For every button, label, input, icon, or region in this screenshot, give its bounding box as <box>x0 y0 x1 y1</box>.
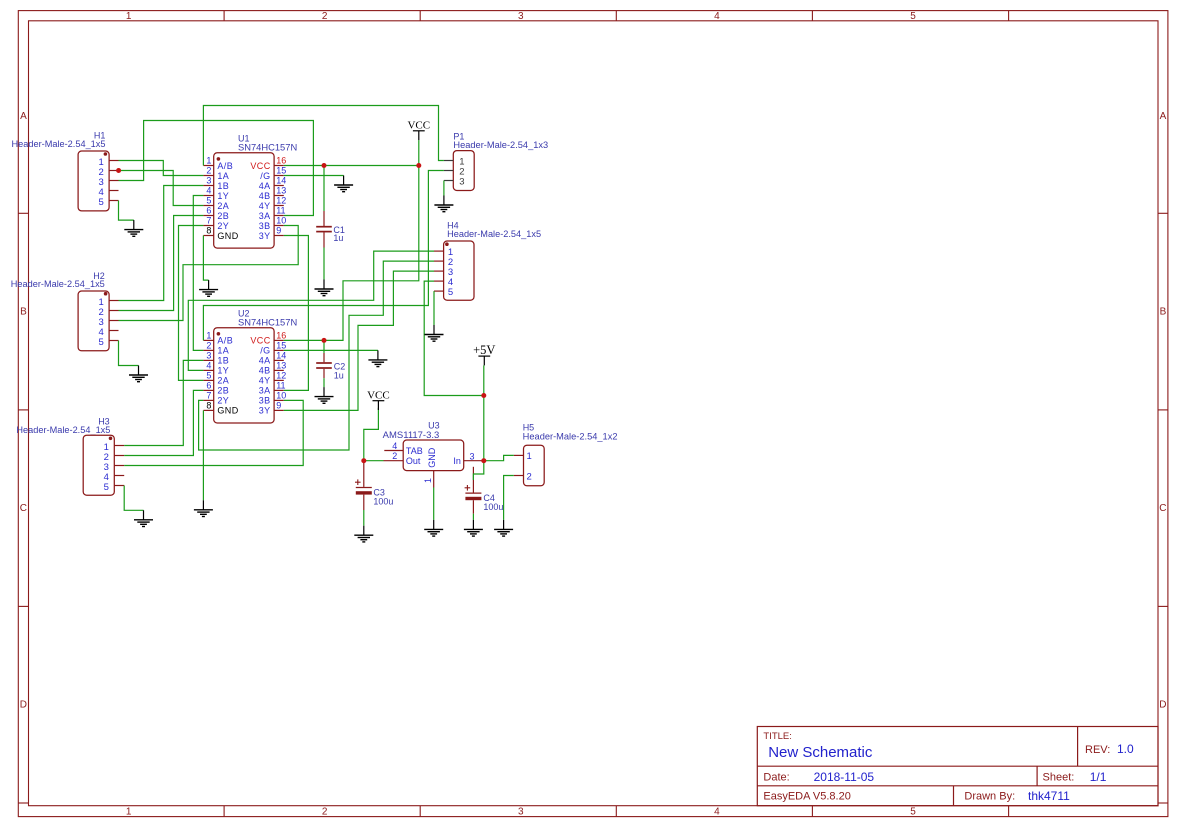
svg-text:/G: /G <box>260 346 270 356</box>
capacitor C2 1u <box>316 353 345 381</box>
wire net U2.6 2B to H3.2 <box>124 390 203 455</box>
ground at C2 <box>315 387 334 403</box>
wire net U2.7 2Y to H4.2 <box>199 261 434 450</box>
wire net VCC bus U1.16 to VCC flag <box>284 165 419 167</box>
svg-text:7: 7 <box>206 391 211 401</box>
svg-text:A/B: A/B <box>217 336 233 346</box>
svg-text:2: 2 <box>392 451 397 461</box>
svg-text:2: 2 <box>322 807 328 818</box>
svg-text:/G: /G <box>260 171 270 181</box>
svg-text:D: D <box>1159 699 1166 710</box>
ground at H2.5 <box>129 366 148 382</box>
svg-text:Date:: Date: <box>763 772 789 784</box>
svg-text:3: 3 <box>470 452 475 462</box>
svg-text:1Y: 1Y <box>217 191 229 201</box>
svg-text:Drawn By:: Drawn By: <box>964 791 1015 803</box>
svg-text:8: 8 <box>206 401 211 411</box>
svg-text:13: 13 <box>276 186 286 196</box>
svg-text:4B: 4B <box>259 366 271 376</box>
svg-text:5: 5 <box>206 371 211 381</box>
svg-text:1A: 1A <box>217 171 229 181</box>
wire net H1.3 to U1.11 3A <box>119 121 314 216</box>
junction VCC at C2 / U2.16 <box>322 338 327 343</box>
wire net VCC down to U2.16 <box>284 166 419 341</box>
svg-text:2018-11-05: 2018-11-05 <box>814 770 875 784</box>
svg-text:VCC: VCC <box>367 389 390 401</box>
svg-text:5: 5 <box>104 482 109 493</box>
svg-text:3: 3 <box>518 807 524 818</box>
wire +5V flag stem to junction <box>483 365 485 395</box>
svg-text:1/1: 1/1 <box>1090 770 1107 784</box>
wire net U1.4 1Y to U2.2 1A <box>193 196 203 351</box>
wire net H1.2 to U1.5 2A <box>119 171 204 206</box>
wire C4 bottom to ground <box>472 514 474 520</box>
svg-text:Header-Male-2.54_1x3: Header-Male-2.54_1x3 <box>453 140 548 150</box>
wire net VCC out of U3.2 Out <box>364 460 384 462</box>
svg-text:2Y: 2Y <box>217 396 229 406</box>
wire net U1.9 3Y to U2.11 3A <box>284 236 309 391</box>
svg-text:Header-Male-2.54_1x5: Header-Male-2.54_1x5 <box>447 229 541 239</box>
svg-text:11: 11 <box>276 206 285 216</box>
ground at H1.5 <box>124 220 143 236</box>
svg-text:A: A <box>1160 111 1167 122</box>
svg-text:14: 14 <box>276 176 286 186</box>
svg-text:4A: 4A <box>259 181 271 191</box>
svg-text:11: 11 <box>276 381 285 391</box>
ground at C4 <box>464 520 483 536</box>
wire net In junction to H5.1 <box>484 455 514 460</box>
svg-text:2: 2 <box>206 341 211 351</box>
svg-text:1: 1 <box>423 478 433 483</box>
svg-text:GND: GND <box>217 231 238 241</box>
ground at C1 <box>315 280 334 296</box>
svg-text:10: 10 <box>276 391 286 401</box>
wire U1.8 GND to ground <box>203 236 208 281</box>
svg-text:12: 12 <box>276 371 286 381</box>
svg-text:4: 4 <box>714 11 720 22</box>
svg-text:D: D <box>20 699 27 710</box>
junction +5V <box>481 393 486 398</box>
svg-text:3Y: 3Y <box>259 406 271 416</box>
svg-text:14: 14 <box>276 351 286 361</box>
wire net U1.7 2Y to U2.5 2A <box>179 226 204 381</box>
svg-text:2: 2 <box>527 471 532 482</box>
svg-text:+5V: +5V <box>473 343 495 357</box>
svg-text:A: A <box>20 111 27 122</box>
wire U2.15 /G to ground <box>284 349 378 351</box>
svg-text:1: 1 <box>527 451 532 462</box>
wire C1 bottom to ground <box>323 248 325 280</box>
wire VCC flag at U3 to Out junction <box>364 408 379 461</box>
wire net U2.1 A/B to P1.2 <box>203 171 444 341</box>
svg-text:Header-Male-2.54_1x2: Header-Male-2.54_1x2 <box>523 432 618 442</box>
wire net H2.3 to U1.10 3B <box>119 226 299 321</box>
svg-text:4: 4 <box>206 186 211 196</box>
wire net H2.2 to U1.6 2B <box>119 216 204 311</box>
ground at U2.15 <box>368 350 387 366</box>
wire net +5V to H4.4 <box>424 281 484 395</box>
svg-text:5: 5 <box>910 11 916 22</box>
wire U3.1 GND pin to ground <box>433 488 435 520</box>
wire net U2.10 3B to H3.3 <box>124 400 303 465</box>
ground at H3.5 <box>134 510 153 526</box>
capacitor C3 100u <box>355 461 393 510</box>
svg-text:B: B <box>20 306 27 317</box>
svg-text:Header-Male-2.54_1x5: Header-Male-2.54_1x5 <box>11 279 105 289</box>
wire VCC tap to C1 <box>323 166 325 212</box>
wire VCC tap to C2 <box>323 340 325 353</box>
power flag VCC at U1 <box>407 120 430 141</box>
svg-text:100u: 100u <box>373 496 393 506</box>
wire net H1.1 to U1.2 1A <box>119 161 204 176</box>
connector H3 Header-Male-2.54_1x5 <box>16 416 124 495</box>
connector H1 Header-Male-2.54_1x5 <box>12 131 119 211</box>
svg-text:1: 1 <box>206 156 211 166</box>
svg-text:9: 9 <box>276 401 281 411</box>
wire H3.5 to ground <box>124 486 143 511</box>
ground at H5.2 <box>494 520 513 536</box>
power flag +5V at U3 In <box>473 343 495 366</box>
svg-text:2: 2 <box>206 166 211 176</box>
svg-text:6: 6 <box>206 206 211 216</box>
svg-text:4: 4 <box>392 441 397 451</box>
wire net +5V down to U3 In <box>483 396 485 461</box>
svg-text:Header-Male-2.54_1x5: Header-Male-2.54_1x5 <box>16 425 110 435</box>
ground at U3.1 <box>424 520 443 536</box>
junction VCC at flag <box>416 163 421 168</box>
svg-text:8: 8 <box>206 226 211 236</box>
svg-text:5: 5 <box>99 337 104 348</box>
ground at U1.15 <box>334 176 353 192</box>
connector H2 Header-Male-2.54_1x5 <box>11 271 119 351</box>
svg-text:15: 15 <box>276 341 286 351</box>
svg-text:4B: 4B <box>259 191 271 201</box>
wire In junction tap to C4 <box>473 461 483 480</box>
junction VCC at C1 <box>322 163 327 168</box>
svg-text:3: 3 <box>518 11 524 22</box>
svg-text:3Y: 3Y <box>259 231 271 241</box>
svg-text:Header-Male-2.54_1x5: Header-Male-2.54_1x5 <box>12 139 106 149</box>
wire net U2.3 1B to H3.1 <box>124 360 203 445</box>
svg-text:Out: Out <box>406 456 421 466</box>
svg-text:VCC: VCC <box>407 120 430 132</box>
svg-text:6: 6 <box>206 381 211 391</box>
svg-text:thk4711: thk4711 <box>1028 789 1070 803</box>
svg-text:VCC: VCC <box>250 161 270 171</box>
svg-text:1: 1 <box>206 331 211 341</box>
svg-text:4: 4 <box>206 361 211 371</box>
svg-text:B: B <box>1160 306 1167 317</box>
svg-text:REV:: REV: <box>1085 744 1110 756</box>
wire H4.5 to ground <box>433 291 435 325</box>
wire H1.5 to ground <box>119 201 134 221</box>
svg-text:C: C <box>20 503 27 514</box>
wire net U2.9 3Y to H4.3 <box>284 271 434 410</box>
svg-text:3B: 3B <box>259 396 271 406</box>
ground at P1.3 <box>434 196 453 212</box>
regulator U3 AMS1117-3.3 <box>383 421 484 488</box>
IC U1 SN74HC157N <box>203 133 297 248</box>
svg-text:1Y: 1Y <box>217 366 229 376</box>
svg-text:16: 16 <box>276 331 286 341</box>
junction at H1.2 <box>116 168 121 173</box>
wire net P1.1 to U1.1 A/B select <box>203 106 444 166</box>
svg-text:1u: 1u <box>334 371 344 381</box>
connector H5 Header-Male-2.54_1x2 <box>514 423 618 486</box>
svg-text:1.0: 1.0 <box>1117 742 1134 756</box>
wire VCC flag stem <box>418 140 420 165</box>
svg-text:10: 10 <box>276 216 286 226</box>
svg-text:AMS1117-3.3: AMS1117-3.3 <box>383 430 440 440</box>
svg-text:13: 13 <box>276 361 286 371</box>
capacitor C4 100u <box>465 467 504 514</box>
title block <box>757 727 1158 806</box>
svg-text:16: 16 <box>276 156 286 166</box>
svg-text:4A: 4A <box>259 356 271 366</box>
svg-text:3A: 3A <box>259 386 271 396</box>
svg-text:C: C <box>1159 503 1166 514</box>
svg-text:1B: 1B <box>217 181 229 191</box>
connector H4 Header-Male-2.54_1x5 <box>434 221 541 301</box>
power flag VCC at U3 Out <box>367 389 390 410</box>
svg-text:3: 3 <box>206 351 211 361</box>
svg-text:3: 3 <box>459 176 464 187</box>
svg-text:4Y: 4Y <box>259 201 271 211</box>
svg-text:4Y: 4Y <box>259 376 271 386</box>
svg-text:2B: 2B <box>217 386 229 396</box>
svg-text:1B: 1B <box>217 356 229 366</box>
svg-text:4: 4 <box>714 807 720 818</box>
svg-text:1A: 1A <box>217 346 229 356</box>
svg-text:5: 5 <box>99 197 104 208</box>
svg-text:Sheet:: Sheet: <box>1043 772 1075 784</box>
svg-text:GND: GND <box>217 406 238 416</box>
wire P1.3 to ground <box>443 181 445 196</box>
wire C3 bottom to ground <box>363 510 365 526</box>
svg-text:2A: 2A <box>217 376 229 386</box>
wire C2 bottom to ground <box>323 378 325 387</box>
svg-text:SN74HC157N: SN74HC157N <box>238 143 297 153</box>
svg-text:12: 12 <box>276 196 286 206</box>
svg-text:A/B: A/B <box>217 161 233 171</box>
svg-text:100u: 100u <box>483 502 503 512</box>
wire U1.15 /G to ground <box>284 175 344 177</box>
svg-text:EasyEDA V5.8.20: EasyEDA V5.8.20 <box>763 791 850 803</box>
wire H5.2 to ground <box>504 476 514 520</box>
svg-text:1: 1 <box>126 11 132 22</box>
capacitor C1 1u <box>316 211 345 248</box>
svg-text:SN74HC157N: SN74HC157N <box>238 318 297 328</box>
wire U2.8 GND to ground <box>202 410 204 500</box>
svg-text:15: 15 <box>276 166 286 176</box>
junction U3 Out / C3 / VCC <box>361 458 366 463</box>
svg-text:5: 5 <box>448 287 453 298</box>
svg-text:2Y: 2Y <box>217 221 229 231</box>
svg-text:3B: 3B <box>259 221 271 231</box>
svg-text:3A: 3A <box>259 211 271 221</box>
ground at U1.8 <box>199 280 218 296</box>
svg-text:1u: 1u <box>333 233 343 243</box>
junction U3 In / C4 / +5V / H5.1 <box>481 458 486 463</box>
svg-text:3: 3 <box>206 176 211 186</box>
svg-text:1: 1 <box>126 807 132 818</box>
svg-text:VCC: VCC <box>250 336 270 346</box>
svg-text:TAB: TAB <box>406 446 423 456</box>
svg-text:9: 9 <box>276 226 281 236</box>
svg-text:GND: GND <box>427 447 437 468</box>
svg-text:7: 7 <box>206 216 211 226</box>
connector P1 Header-Male-2.54_1x3 <box>444 132 548 191</box>
svg-text:2A: 2A <box>217 201 229 211</box>
ground at U2.8 <box>194 500 213 516</box>
wire net H2.1 to U1.3 1B <box>119 186 204 301</box>
svg-text:In: In <box>453 456 461 466</box>
svg-text:5: 5 <box>206 196 211 206</box>
wire net U2.4 1Y to H4.1 <box>188 251 434 370</box>
svg-text:New Schematic: New Schematic <box>768 744 873 761</box>
svg-text:TITLE:: TITLE: <box>763 731 792 742</box>
wire H2.5 to ground <box>119 341 139 366</box>
IC U2 SN74HC157N <box>203 308 297 423</box>
ground at H4.5 <box>425 325 444 341</box>
ground at C3 <box>354 526 373 542</box>
svg-text:2B: 2B <box>217 211 229 221</box>
svg-text:5: 5 <box>910 807 916 818</box>
svg-text:2: 2 <box>322 11 328 22</box>
